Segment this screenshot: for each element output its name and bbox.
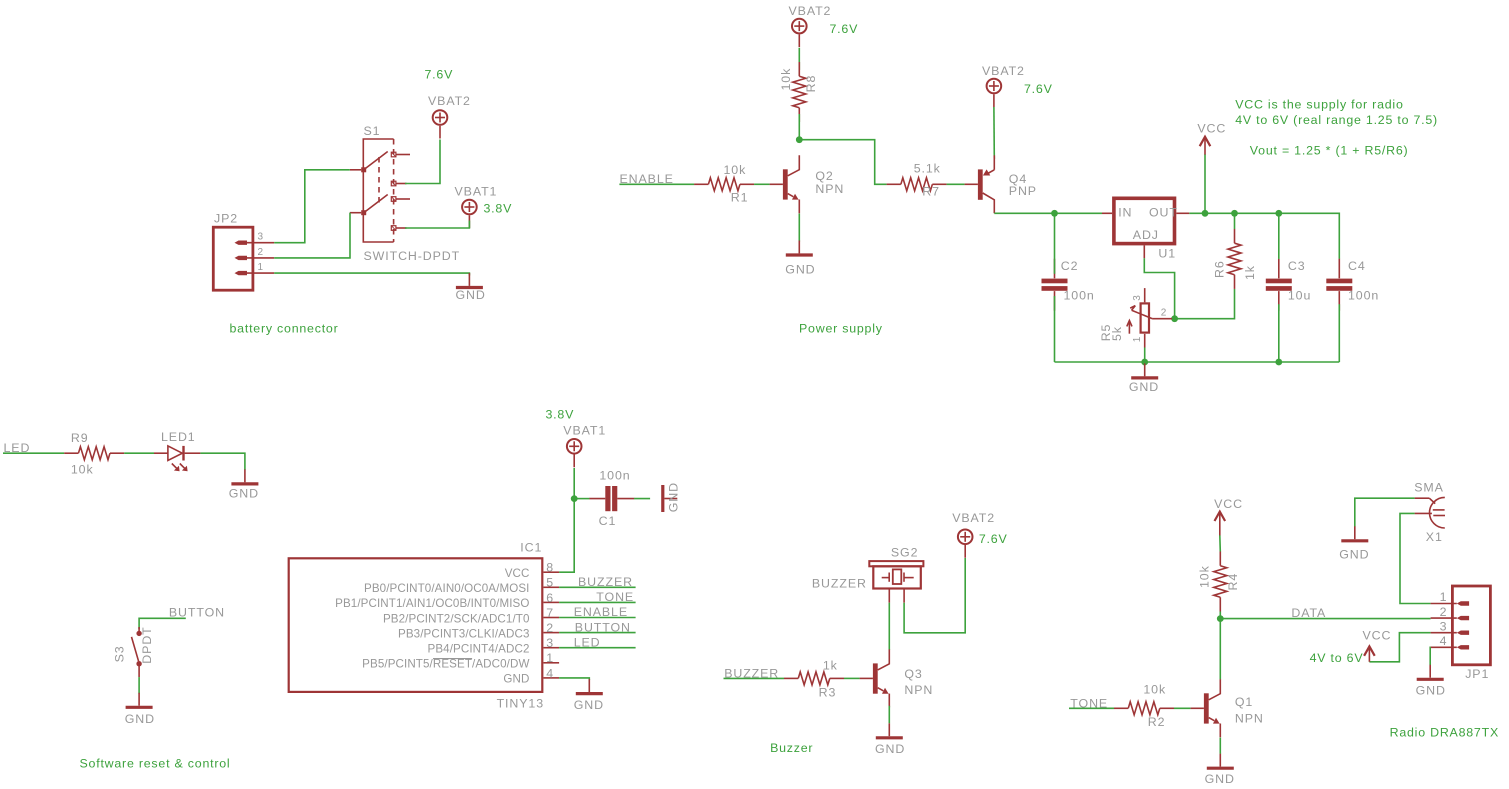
svg-text:2: 2 — [1440, 605, 1448, 619]
svg-text:2: 2 — [546, 621, 554, 635]
svg-text:Q1: Q1 — [1235, 695, 1253, 709]
wire LED1 cathode to ground — [200, 453, 245, 470]
buzzer SG2 — [869, 561, 923, 603]
wire R6 top lead — [1234, 213, 1236, 229]
svg-text:BUZZER: BUZZER — [578, 575, 633, 589]
svg-text:SMA: SMA — [1414, 480, 1444, 494]
svg-text:VCC is the supply for radio: VCC is the supply for radio — [1235, 98, 1403, 112]
svg-text:VBAT1: VBAT1 — [563, 423, 606, 437]
wire JP2 pin1 to ground — [274, 273, 469, 275]
svg-text:BUZZER: BUZZER — [812, 576, 867, 590]
S1 throw contact 2a with stub — [391, 197, 410, 202]
svg-text:VBAT2: VBAT2 — [982, 64, 1025, 78]
svg-text:C2: C2 — [1061, 259, 1079, 273]
svg-text:TONE: TONE — [1070, 696, 1108, 710]
wire VCC arrow stem — [1204, 154, 1206, 213]
svg-text:VBAT2: VBAT2 — [789, 4, 832, 18]
junction VCC arrow node — [1202, 210, 1209, 217]
IC1 box — [289, 558, 543, 692]
wire R2 to Q1 base — [1174, 707, 1191, 709]
supply VBAT2 (Q4) — [982, 64, 1025, 107]
svg-text:3: 3 — [546, 636, 554, 650]
S1 pole 1 lever — [364, 152, 388, 170]
junction C1 node — [571, 495, 578, 502]
svg-text:VCC: VCC — [1197, 122, 1226, 136]
wire S1 throw 2b to VBAT1 — [405, 221, 469, 229]
junction DATA node — [1217, 615, 1224, 622]
ground (Q1) — [1205, 754, 1235, 787]
svg-text:PB3/PCINT3/CLKI/ADC3: PB3/PCINT3/CLKI/ADC3 — [398, 627, 530, 640]
supply VBAT1 (IC) — [563, 423, 606, 467]
wire VCC to R4 — [1219, 535, 1222, 551]
svg-text:10k: 10k — [724, 163, 747, 177]
wire Q2 emitter to ground — [798, 214, 800, 242]
wire ground rail — [1055, 361, 1340, 363]
wire IC GND pin to ground — [559, 678, 589, 680]
ground (JP1) — [1416, 665, 1446, 698]
ground (battery) — [456, 273, 486, 302]
svg-text:X1: X1 — [1426, 530, 1443, 544]
wire ENABLE net (IC) — [559, 617, 636, 619]
S1 pole 2 lever — [364, 195, 388, 213]
regulator U1 box — [1102, 198, 1189, 258]
svg-text:Vout = 1.25 * (1 + R5/R6): Vout = 1.25 * (1 + R5/R6) — [1250, 143, 1409, 157]
trimpot R5 5k — [1127, 288, 1172, 347]
svg-text:GND: GND — [1129, 380, 1159, 394]
switch S3 — [132, 627, 142, 677]
svg-text:1k: 1k — [1243, 265, 1257, 280]
svg-text:100n: 100n — [599, 468, 630, 482]
svg-text:VCC: VCC — [1363, 628, 1392, 642]
svg-text:GND: GND — [456, 288, 486, 302]
supply arrow VCC (regulator) — [1200, 137, 1211, 155]
svg-text:GND: GND — [574, 698, 604, 712]
svg-text:Q3: Q3 — [904, 667, 922, 681]
ground (LED) — [229, 469, 259, 500]
svg-text:VBAT1: VBAT1 — [455, 185, 498, 199]
svg-text:GND: GND — [503, 673, 529, 686]
svg-text:Radio DRA887TX: Radio DRA887TX — [1390, 725, 1499, 739]
svg-text:GND: GND — [1339, 548, 1369, 562]
svg-text:7.6V: 7.6V — [425, 68, 454, 82]
S1 pole 2 common contact — [350, 210, 366, 215]
wire C1 left lead — [574, 498, 589, 500]
svg-text:5k: 5k — [1110, 326, 1124, 341]
svg-text:GND: GND — [785, 263, 815, 277]
svg-text:LED: LED — [4, 441, 31, 455]
svg-text:2: 2 — [258, 247, 264, 258]
svg-text:TONE: TONE — [596, 590, 634, 604]
svg-text:R2: R2 — [1148, 715, 1166, 729]
junction C3 top — [1275, 210, 1282, 217]
svg-text:8: 8 — [546, 561, 554, 575]
svg-text:VBAT2: VBAT2 — [428, 94, 471, 108]
svg-text:IC1: IC1 — [520, 541, 542, 555]
svg-text:Q2: Q2 — [815, 169, 833, 183]
wire BUZZER net (Q3) — [724, 677, 785, 679]
supply VBAT2 (buzzer) — [952, 511, 995, 558]
supply VBAT1 (battery) — [455, 185, 498, 229]
wire Q1 emitter to ground — [1219, 738, 1221, 754]
wire VBAT2 to R8 — [798, 48, 800, 70]
svg-text:GND: GND — [875, 742, 905, 756]
svg-text:DATA: DATA — [1291, 606, 1326, 620]
wire C4 bottom lead — [1338, 304, 1340, 362]
wire R8 to collector junction — [798, 114, 800, 140]
wire SMA center to JP1 pin1 — [1400, 513, 1431, 603]
svg-text:4: 4 — [1440, 634, 1448, 648]
capacitor C3 10u — [1266, 259, 1292, 311]
capacitor C1 100n — [589, 486, 634, 511]
svg-text:LED1: LED1 — [161, 430, 196, 444]
S1 pole 1 common contact — [350, 167, 366, 172]
S1 throw contact 1b with stub — [391, 181, 406, 186]
wire SG2 left pin to Q3 collector — [888, 603, 890, 650]
antenna connector X1 SMA — [1415, 497, 1445, 528]
svg-text:U1: U1 — [1158, 246, 1176, 260]
junction ground rail C3 — [1275, 359, 1282, 366]
svg-text:PB5/PCINT5/RESET/ADC0/DW: PB5/PCINT5/RESET/ADC0/DW — [362, 658, 529, 671]
wire ENABLE net — [619, 183, 694, 185]
svg-text:GND: GND — [666, 482, 680, 512]
svg-text:PB2/PCINT2/SCK/ADC1/T0: PB2/PCINT2/SCK/ADC1/T0 — [383, 612, 530, 625]
wire TONE net (IC) — [559, 601, 636, 603]
svg-text:BUTTON: BUTTON — [575, 620, 631, 634]
svg-text:BUZZER: BUZZER — [724, 667, 779, 681]
junction R6 top — [1231, 210, 1238, 217]
wire TONE net — [1069, 707, 1114, 709]
ground (regulator) — [1129, 363, 1159, 394]
ground (C1) rotated — [663, 482, 681, 512]
transistor Q3 NPN — [860, 649, 890, 707]
wire VBAT2 to Q4 emitter — [993, 107, 995, 159]
svg-text:1: 1 — [1132, 336, 1143, 342]
svg-text:S1: S1 — [364, 124, 381, 138]
svg-text:C3: C3 — [1288, 259, 1306, 273]
svg-text:4: 4 — [546, 666, 554, 680]
svg-text:S3: S3 — [113, 645, 127, 662]
svg-text:PB4/PCINT4/ADC2: PB4/PCINT4/ADC2 — [427, 643, 529, 656]
capacitor C2 100n — [1042, 259, 1068, 311]
svg-text:4V to 6V: 4V to 6V — [1310, 651, 1364, 665]
resistor R4 10k — [1214, 552, 1227, 612]
wire C3 top lead — [1278, 213, 1280, 259]
svg-text:SWITCH-DPDT: SWITCH-DPDT — [364, 249, 461, 263]
wire JP1 pin4 to ground — [1429, 647, 1431, 665]
connector JP2 — [213, 227, 274, 290]
svg-text:5.1k: 5.1k — [914, 161, 941, 175]
transistor Q1 NPN — [1191, 679, 1221, 737]
wire R7 to Q4 base — [947, 183, 965, 185]
S1 throw contact 2b with stub — [391, 226, 406, 231]
wire C2 bottom lead — [1054, 296, 1056, 362]
diode LED1 — [154, 446, 200, 471]
svg-text:3.8V: 3.8V — [546, 407, 575, 421]
supply VBAT2 (battery) — [428, 94, 471, 139]
wire BUZZER net (IC) — [559, 586, 636, 588]
svg-text:ADJ: ADJ — [1133, 228, 1159, 242]
svg-text:10u: 10u — [1288, 289, 1311, 303]
svg-text:LED: LED — [574, 635, 601, 649]
svg-text:10k: 10k — [71, 462, 94, 476]
svg-text:5: 5 — [546, 576, 554, 590]
svg-text:GND: GND — [1205, 772, 1235, 786]
svg-text:GND: GND — [229, 487, 259, 501]
svg-text:7: 7 — [546, 606, 554, 620]
svg-text:10k: 10k — [1198, 565, 1212, 588]
svg-text:7.6V: 7.6V — [1024, 82, 1053, 96]
svg-text:Software reset & control: Software reset & control — [80, 756, 231, 770]
svg-text:VBAT2: VBAT2 — [952, 511, 995, 525]
svg-text:3: 3 — [258, 232, 264, 243]
wire R3 to Q3 base — [844, 677, 860, 679]
resistor R2 10k — [1114, 702, 1174, 715]
wire R9 to LED1 anode — [124, 452, 154, 454]
svg-text:GND: GND — [1416, 684, 1446, 698]
svg-text:100n: 100n — [1064, 289, 1095, 303]
resistor R7 5.1k — [887, 178, 947, 191]
svg-text:1: 1 — [258, 262, 264, 273]
svg-text:R8: R8 — [804, 75, 818, 93]
svg-text:PNP: PNP — [1009, 184, 1037, 198]
svg-text:R1: R1 — [731, 190, 749, 204]
resistor R1 10k — [694, 178, 754, 191]
ground (SMA) — [1339, 526, 1369, 561]
svg-text:NPN: NPN — [904, 683, 933, 697]
svg-text:TINY13: TINY13 — [497, 696, 544, 710]
svg-text:4V to 6V (real range 1.25 to 7: 4V to 6V (real range 1.25 to 7.5) — [1235, 113, 1438, 127]
S1 throw contact 1a with stub — [391, 152, 410, 157]
svg-text:ENABLE: ENABLE — [574, 605, 628, 619]
wire LED net (IC) — [559, 647, 636, 649]
svg-text:JP2: JP2 — [214, 212, 238, 226]
wire Q3 emitter to ground — [888, 706, 890, 724]
wire C2 top lead — [1054, 213, 1056, 273]
svg-text:R6: R6 — [1212, 260, 1226, 278]
supply arrow VCC (JP1) — [1364, 646, 1375, 661]
ground (Q3) — [875, 723, 905, 756]
resistor R8 10k — [793, 62, 806, 122]
svg-text:7.6V: 7.6V — [830, 22, 859, 36]
ground (IC) — [574, 679, 604, 712]
wire SG2 right pin to VBAT2 — [904, 558, 965, 633]
junction wiper node — [1171, 315, 1178, 322]
wire R5 bottom lead — [1144, 348, 1146, 363]
svg-text:C1: C1 — [599, 514, 617, 528]
wire R1 to Q2 base — [754, 183, 770, 185]
svg-text:10k: 10k — [1143, 683, 1166, 697]
wire BUTTON net (IC) — [559, 632, 636, 634]
wire Q4 collector to U1 IN — [994, 212, 1102, 214]
svg-text:Buzzer: Buzzer — [770, 741, 813, 755]
junction ground rail GND — [1141, 359, 1148, 366]
svg-text:3.8V: 3.8V — [484, 202, 513, 216]
wire U1 ADJ jog to wiper node — [1144, 258, 1174, 318]
wire LED net — [3, 452, 64, 454]
overline RESET — [433, 658, 472, 660]
svg-text:battery connector: battery connector — [230, 322, 339, 336]
capacitor C4 100n — [1326, 259, 1352, 311]
wire BUTTON net (S3) — [139, 618, 186, 629]
wire R4 to DATA junction — [1219, 612, 1221, 619]
resistor R6 1k — [1228, 229, 1241, 289]
supply arrow VCC (R4) — [1215, 512, 1226, 536]
transistor Q4 PNP — [965, 155, 995, 213]
wire JP2 pin3 to S1 pole1 common — [274, 170, 350, 243]
svg-text:GND: GND — [125, 712, 155, 726]
wire junction to R7 — [799, 140, 886, 185]
wire C1 right lead — [634, 498, 650, 500]
svg-text:ENABLE: ENABLE — [620, 172, 674, 186]
svg-text:1: 1 — [1440, 590, 1448, 604]
svg-text:7.6V: 7.6V — [979, 532, 1008, 546]
svg-text:Power supply: Power supply — [799, 322, 883, 336]
wire VBAT1 down to IC VCC — [559, 468, 574, 572]
connector JP1 — [1431, 586, 1491, 665]
wire DATA net — [1220, 618, 1430, 620]
svg-text:3: 3 — [1440, 619, 1448, 633]
ground (Q2) — [785, 241, 815, 277]
wire Q1 collector — [1219, 619, 1221, 680]
svg-text:R3: R3 — [819, 685, 837, 699]
wire SMA shield to ground — [1355, 498, 1415, 526]
svg-text:OUT: OUT — [1149, 205, 1178, 219]
wire R6 bottom to wiper node — [1175, 289, 1235, 319]
resistor R9 10k — [64, 447, 124, 460]
junction Q2 collector node — [796, 136, 803, 143]
svg-text:100n: 100n — [1348, 289, 1379, 303]
svg-text:NPN: NPN — [1235, 711, 1264, 725]
svg-text:SG2: SG2 — [891, 546, 919, 560]
resistor R3 1k — [784, 672, 844, 685]
svg-text:VCC: VCC — [1214, 497, 1243, 511]
svg-text:NPN: NPN — [815, 182, 844, 196]
wire U1 OUT rail — [1189, 213, 1339, 259]
svg-text:BUTTON: BUTTON — [169, 605, 225, 619]
svg-text:10k: 10k — [779, 68, 793, 91]
junction C2 top — [1051, 210, 1058, 217]
svg-text:R4: R4 — [1226, 573, 1240, 591]
IC1 pin stubs — [544, 572, 560, 678]
svg-text:R9: R9 — [71, 431, 89, 445]
supply VBAT2 (Q2 stage) — [789, 4, 832, 47]
svg-text:C4: C4 — [1348, 259, 1366, 273]
svg-text:3: 3 — [1132, 295, 1143, 301]
svg-text:1: 1 — [546, 651, 554, 665]
svg-text:6: 6 — [546, 591, 554, 605]
switch S1 body — [363, 139, 393, 242]
svg-text:DPDT: DPDT — [140, 626, 154, 663]
svg-text:R7: R7 — [922, 185, 940, 199]
wire S3 to ground — [138, 677, 140, 693]
svg-text:IN: IN — [1118, 205, 1132, 219]
svg-text:1k: 1k — [823, 659, 838, 673]
wire JP1 pin3 to VCC arrow — [1369, 633, 1430, 662]
wire JP2 pin2 to S1 pole2 common — [274, 213, 350, 258]
svg-text:PB0/PCINT0/AIN0/OC0A/MOSI: PB0/PCINT0/AIN0/OC0A/MOSI — [364, 582, 530, 595]
svg-text:2: 2 — [1161, 307, 1167, 318]
transistor Q2 NPN — [770, 155, 800, 213]
wire VBAT2 to S1 throw 1b — [405, 140, 440, 184]
svg-text:JP1: JP1 — [1465, 667, 1489, 681]
svg-text:VCC: VCC — [505, 567, 530, 580]
svg-text:PB1/PCINT1/AIN1/OC0B/INT0/MISO: PB1/PCINT1/AIN1/OC0B/INT0/MISO — [335, 597, 529, 610]
wire C3 bottom lead — [1278, 304, 1280, 362]
ground (S3) — [125, 693, 155, 726]
